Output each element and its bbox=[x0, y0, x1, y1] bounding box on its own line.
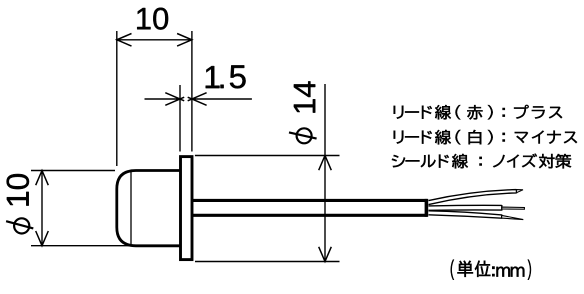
dimension phi10: value label 10 (rotated) bbox=[7, 174, 29, 206]
dimension phi10: extension line top bbox=[31, 170, 115, 172]
dimension 1.5: right dimension line with arrowhead bbox=[188, 93, 252, 106]
label: lead wire (red) = plus bbox=[394, 105, 562, 120]
dimension 10: right arrowhead bbox=[177, 34, 192, 47]
dimension phi10: bottom arrowhead bbox=[36, 231, 49, 246]
label: lead wire (white) = minus bbox=[394, 130, 577, 144]
cable end cap bbox=[425, 199, 429, 217]
dimension phi10: phi symbol bbox=[6, 218, 33, 233]
dimension phi14: dimension line bbox=[324, 84, 326, 262]
label: units mm bbox=[451, 260, 531, 280]
flange bbox=[181, 157, 193, 260]
lead wire 3 bare conductor bbox=[502, 215, 524, 219]
dimension 10: extension line left bbox=[116, 31, 118, 166]
dimension 10: left arrowhead bbox=[117, 34, 132, 47]
label: shield wire = noise countermeasure bbox=[392, 154, 571, 169]
dimension phi10: dimension line bbox=[41, 171, 43, 246]
dimension phi10: extension line bottom bbox=[31, 245, 133, 247]
lead wire 2 bare conductor bbox=[502, 207, 525, 209]
dimension 1.5: extension line left bbox=[179, 85, 181, 152]
lead wire 3 (bottom, shield) insulation bbox=[429, 211, 502, 219]
lead wire 2 (middle, white) insulation bbox=[429, 205, 502, 211]
dimension phi14: value label 14 (rotated) bbox=[294, 81, 315, 112]
dimension 1.5: value label bbox=[206, 65, 246, 88]
dimension phi14: extension line top bbox=[195, 155, 340, 157]
dimension phi14: bottom arrowhead bbox=[319, 247, 332, 262]
dimension phi10: top arrowhead bbox=[36, 171, 49, 186]
dimension 10: dimension line bbox=[117, 39, 192, 41]
dimension 1.5: left dimension line with arrowhead bbox=[145, 93, 185, 106]
dimension phi14: extension line bottom bbox=[195, 261, 340, 263]
dimension phi14: top arrowhead bbox=[319, 156, 332, 171]
lead wire 1 (top, red) insulation bbox=[429, 189, 517, 205]
dimension phi14: phi symbol bbox=[289, 128, 317, 143]
lead wire 1 bare tip bbox=[517, 190, 524, 193]
dimension 10/1.5: extension line right bbox=[191, 31, 193, 152]
dome tangent line bbox=[130, 172, 132, 245]
dimension 10: value label bbox=[137, 8, 168, 30]
sensor body (dome head) bbox=[117, 171, 180, 246]
cable bottom edge bbox=[193, 214, 428, 217]
cable top edge bbox=[193, 199, 428, 202]
